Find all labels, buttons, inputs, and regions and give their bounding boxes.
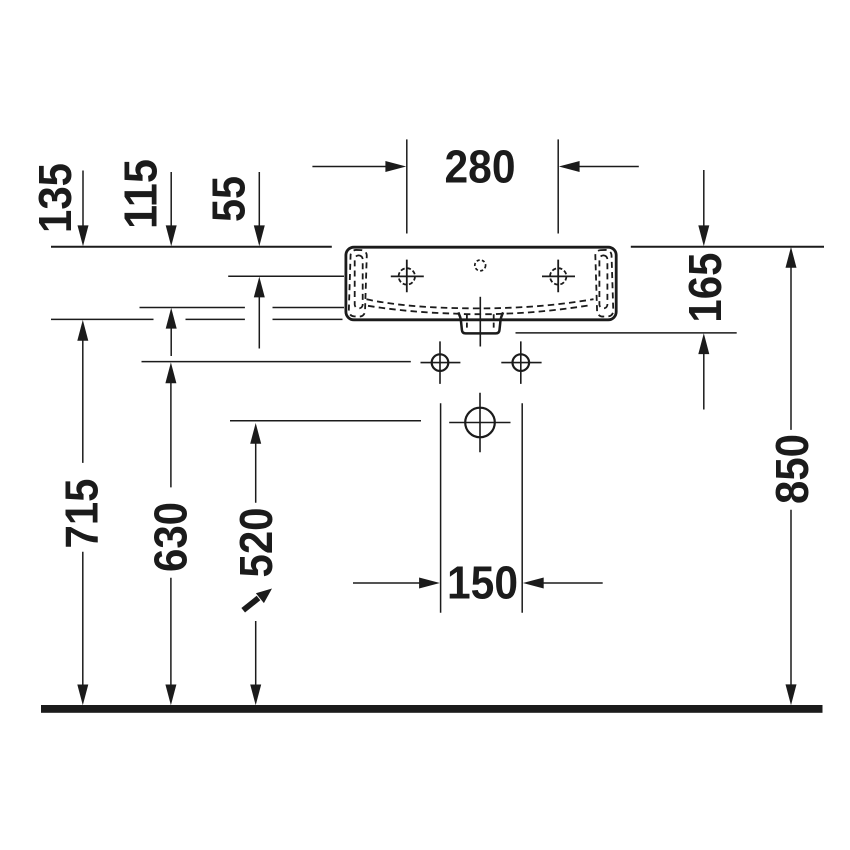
drain hidden pipe dashed sides [467,314,494,330]
arrowhead 165 down [698,225,709,246]
svg-text:115: 115 [115,159,167,229]
basin inner rim dashed right outer loop [595,250,613,317]
dim 115 line [170,172,172,226]
svg-text:55: 55 [203,176,255,222]
washbasin outline [346,247,616,320]
drain centerline [479,297,481,347]
dim 55 line [258,172,260,226]
arrowhead 630 down [165,685,176,706]
arrowhead 150 right-dim left-pointing [523,578,544,589]
svg-text:165: 165 [679,253,731,323]
wall top line [51,246,824,248]
dim 55 lower arrow shaft [258,297,260,349]
dim 135 line [82,171,84,226]
ext line 55 faucet level [228,275,344,277]
basin bottom dashed lower curve [368,305,590,314]
arrowhead 715 up [77,320,88,341]
arrowhead 850 down [786,684,797,705]
ext line 150 right [521,403,523,612]
mounting hole left cross [421,341,461,384]
drain outlet circle [465,408,495,438]
dim 150 right arrow shaft [544,582,603,584]
arrowhead 520 leader NE [256,589,272,604]
overflow hole dashed circle [475,260,486,271]
arrowhead 520 up [250,423,261,444]
ext line 165 bottom level [516,332,737,334]
drain outlet cross [449,393,510,453]
dim 630 line [170,383,172,686]
ext line 115 level [140,307,345,309]
ext line 135 level [51,318,343,320]
svg-text:850: 850 [766,434,818,504]
svg-text:715: 715 [56,479,108,549]
svg-text:150: 150 [447,557,518,609]
svg-text:135: 135 [29,163,81,233]
basin inner rim dashed right inner loop [599,255,607,308]
ext line 280 right [557,139,559,233]
arrowhead 55 up [254,277,265,298]
dim 520 line [255,443,257,686]
dim 715 line [82,340,84,686]
faucet hole left dashed circle [399,268,415,284]
dim 150 left arrow shaft [353,582,420,584]
ext line 150 left [440,403,442,612]
arrowhead 850 up [786,247,797,268]
faucet hole right dashed circle [550,268,566,284]
faucet hole left cross [391,260,424,293]
arrowhead 630 up [165,362,176,383]
dim 165 top arrow shaft [703,170,705,226]
dim 115 lower arrow shaft [170,328,172,356]
faucet hole right cross [542,260,575,293]
mounting hole right cross [501,341,541,384]
arrowhead 520 down [250,685,261,706]
svg-text:630: 630 [145,502,197,572]
dim 280 right arrow shaft [580,166,639,168]
arrowhead 715 down [77,685,88,706]
basin bottom dashed upper curve [367,299,594,308]
mounting hole left circle [432,354,449,371]
arrowhead 280 right-dim left-pointing [559,161,580,172]
arrowhead 280 left-dim right-pointing [385,161,406,172]
ext line 630 level [142,361,411,363]
arrowhead 165 up [698,333,709,354]
basin inner rim dashed left inner loop [355,255,363,308]
arrowhead 150 left-dim right-pointing [419,578,440,589]
svg-text:280: 280 [445,140,516,192]
dim 520 leader arrow shaft [243,598,258,610]
arrowhead 115 down [166,225,177,246]
basin inner rim dashed left outer loop [349,250,367,317]
dim 280 left arrow shaft [312,166,386,168]
dim 165 bottom arrow shaft [703,353,705,410]
drain cup [458,312,503,333]
ext line 520 level [230,420,421,422]
arrowhead 55 down [254,225,265,246]
floor line [41,705,823,713]
mounting hole right circle [513,354,530,371]
ext line 280 left [406,139,408,233]
svg-text:520: 520 [230,508,282,578]
arrowhead 135 down [78,225,89,246]
arrowhead 115 up [166,308,177,329]
dim 850 line [790,268,792,686]
